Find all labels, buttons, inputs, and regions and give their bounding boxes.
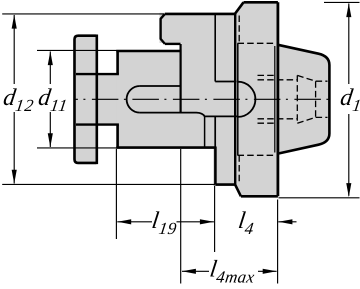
window area fill <box>203 80 238 119</box>
hidden thread top inner <box>258 79 298 81</box>
flange bottom edge <box>241 195 278 198</box>
flange left face <box>234 13 236 185</box>
label d12 <box>1 85 37 115</box>
hidden bore vertical top <box>238 16 240 44</box>
svg-text:12: 12 <box>14 96 35 115</box>
neck top edge <box>76 73 119 75</box>
step face <box>214 147 217 185</box>
body bottom edge <box>116 146 215 149</box>
d12 arrow up <box>12 15 17 29</box>
rib edge vertical <box>214 14 216 82</box>
hidden socket left vertical <box>296 75 298 123</box>
hidden thread top outer <box>258 74 278 76</box>
center line <box>76 98 334 100</box>
d12 arrow down <box>12 170 17 184</box>
d11 bottom extension <box>37 147 117 149</box>
l4 arrow tail <box>278 221 296 223</box>
hidden socket taper top <box>297 75 315 81</box>
hidden bore top <box>238 42 276 44</box>
flange top chamfer <box>235 2 244 14</box>
l19 arrow right <box>200 219 214 224</box>
flange disc outline <box>75 36 97 163</box>
step bottom edge <box>215 183 235 186</box>
shank fill <box>278 45 330 154</box>
disc right face <box>96 35 99 165</box>
flange disc fill <box>73 34 98 164</box>
l4max dimension line <box>182 270 209 272</box>
window right vertical <box>204 116 206 149</box>
hidden socket end top <box>316 80 328 82</box>
svg-text:4max: 4max <box>215 267 256 286</box>
window bottom horizontal <box>205 115 238 117</box>
l4 arrow <box>278 219 292 224</box>
block top edge <box>165 13 235 16</box>
d1 arrow down <box>346 183 351 197</box>
d11 arrow down <box>48 133 53 147</box>
body left face <box>116 51 119 148</box>
bore chord <box>237 43 239 155</box>
label d1 <box>338 85 360 115</box>
d1 bottom extension <box>279 197 360 199</box>
window top horizontal <box>215 81 236 83</box>
l4max arrow right <box>263 269 277 274</box>
d11 top extension <box>37 49 117 51</box>
d12 bottom extension <box>2 183 215 185</box>
label d11 <box>36 85 71 115</box>
window left vertical <box>180 44 182 113</box>
neck fill <box>96 73 119 126</box>
d1 top extension <box>324 1 360 3</box>
l4max arrow left <box>182 269 196 274</box>
svg-text:1: 1 <box>351 96 360 115</box>
hidden thread bottom outer <box>258 122 278 124</box>
main body fill <box>116 50 215 149</box>
svg-text:11: 11 <box>49 96 69 115</box>
d12 rib fill <box>213 13 236 186</box>
bore arc fill <box>220 82 255 117</box>
label l4 <box>236 208 257 238</box>
flange bottom chamfer <box>235 185 241 197</box>
l4max left extension <box>180 149 182 284</box>
flange V fill <box>235 2 278 196</box>
body fills <box>73 2 329 196</box>
top block fill <box>160 13 237 52</box>
d1 dimension line <box>348 4 350 85</box>
rib edge lower <box>214 116 216 148</box>
label l4max <box>208 257 258 287</box>
d12 dimension line <box>13 15 15 84</box>
flange right face <box>276 2 279 196</box>
outlines <box>75 2 330 196</box>
top ridge chamfer profile <box>161 14 165 44</box>
hidden socket right vertical <box>315 81 317 117</box>
neck bottom edge <box>76 123 119 125</box>
d11 dimension line <box>49 52 51 85</box>
slot and internal solid lines <box>127 14 256 155</box>
hidden bore bottom <box>238 154 276 156</box>
l19 dimension line <box>117 221 152 223</box>
l4 right extension <box>277 200 279 284</box>
shank face inner line <box>274 46 276 153</box>
bore arc <box>238 82 256 117</box>
d12 top extension <box>2 13 164 15</box>
l19 arrow left <box>117 219 131 224</box>
hidden bore vertical bottom <box>238 155 240 184</box>
hidden socket taper bottom <box>297 117 315 123</box>
d1 arrow up <box>346 3 351 17</box>
label l19 <box>150 208 180 238</box>
slot left cap <box>127 86 140 113</box>
d11 arrow up <box>48 51 53 65</box>
l19 left extension <box>115 149 117 239</box>
body top edge <box>116 50 180 53</box>
shank outline <box>278 45 330 154</box>
hidden lines <box>238 16 328 185</box>
svg-text:19: 19 <box>158 219 179 238</box>
slot top edge <box>140 85 180 87</box>
l19 right extension <box>214 186 216 252</box>
ridge bottom edge <box>165 43 181 45</box>
hidden thread bottom inner <box>258 118 298 120</box>
flange top edge <box>244 1 278 4</box>
slot bottom edge <box>140 113 205 117</box>
hidden socket end bottom <box>316 116 328 118</box>
